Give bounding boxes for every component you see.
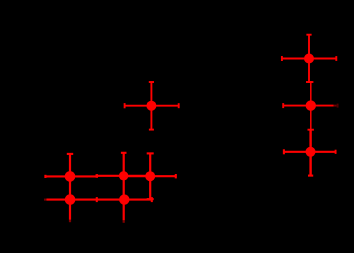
point B x error left cap	[281, 56, 283, 61]
point G y error bottom cap	[147, 198, 154, 200]
point H x error bar	[47, 199, 97, 201]
point I x error right cap	[151, 197, 153, 202]
point C x error bar	[283, 105, 333, 107]
data point H marker	[65, 194, 76, 205]
point D y error bottom cap	[308, 175, 313, 177]
point C y error bottom cap (shared with D top cap)	[308, 129, 314, 131]
point H x error right cap	[96, 197, 98, 202]
point C y error top cap	[308, 81, 313, 83]
point B y error top cap	[306, 34, 311, 36]
data point I marker	[119, 194, 129, 204]
point C y error bar	[310, 82, 312, 130]
point D x error right cap	[335, 150, 337, 154]
data point F marker	[119, 171, 128, 180]
shared y error bar of points E and H	[69, 154, 71, 220]
point F x error bar	[96, 175, 151, 177]
point B x error bar	[282, 58, 336, 60]
data point E marker	[65, 171, 76, 182]
point I x error bar	[97, 199, 152, 201]
point C x error right cap (faint)	[337, 104, 339, 108]
point C x error left cap	[282, 103, 284, 108]
shared y error bar of points F and I	[123, 153, 125, 221]
data point B marker	[304, 54, 314, 64]
point A x error left cap	[124, 103, 126, 108]
point E x error bar	[45, 175, 96, 177]
point A y error top cap	[149, 81, 154, 83]
point A y error bottom cap	[149, 129, 154, 131]
point B y error bottom cap	[306, 81, 312, 83]
point G y error top cap	[147, 152, 154, 154]
point D x error bar	[284, 151, 336, 153]
shared y error bar of points E and H faded bottom tail	[69, 220, 71, 222]
point G y error bar	[149, 153, 151, 199]
point F y error top cap	[121, 152, 127, 154]
shared y error bar of points F and I faded bottom tail	[123, 220, 125, 223]
point E x error left cap	[44, 175, 46, 178]
data point G marker	[145, 171, 155, 181]
point E y error top cap	[67, 153, 73, 155]
point F x error left cap	[96, 174, 98, 178]
point D x error left cap	[283, 149, 285, 154]
data point A marker	[146, 101, 156, 111]
point G x error bar	[125, 175, 176, 177]
point D y error bar	[309, 130, 311, 176]
point A x error bar	[125, 105, 179, 107]
point B x error right cap	[335, 56, 337, 61]
point B y error bar	[308, 35, 310, 82]
data point C marker	[306, 100, 316, 110]
point C x error bar faded right tail	[334, 105, 337, 107]
data point D marker	[306, 147, 316, 157]
point H x error bar faded left tail	[44, 199, 47, 201]
point A y error bar	[150, 82, 152, 130]
point A x error right cap	[178, 103, 180, 108]
point G x error right cap	[175, 174, 177, 178]
